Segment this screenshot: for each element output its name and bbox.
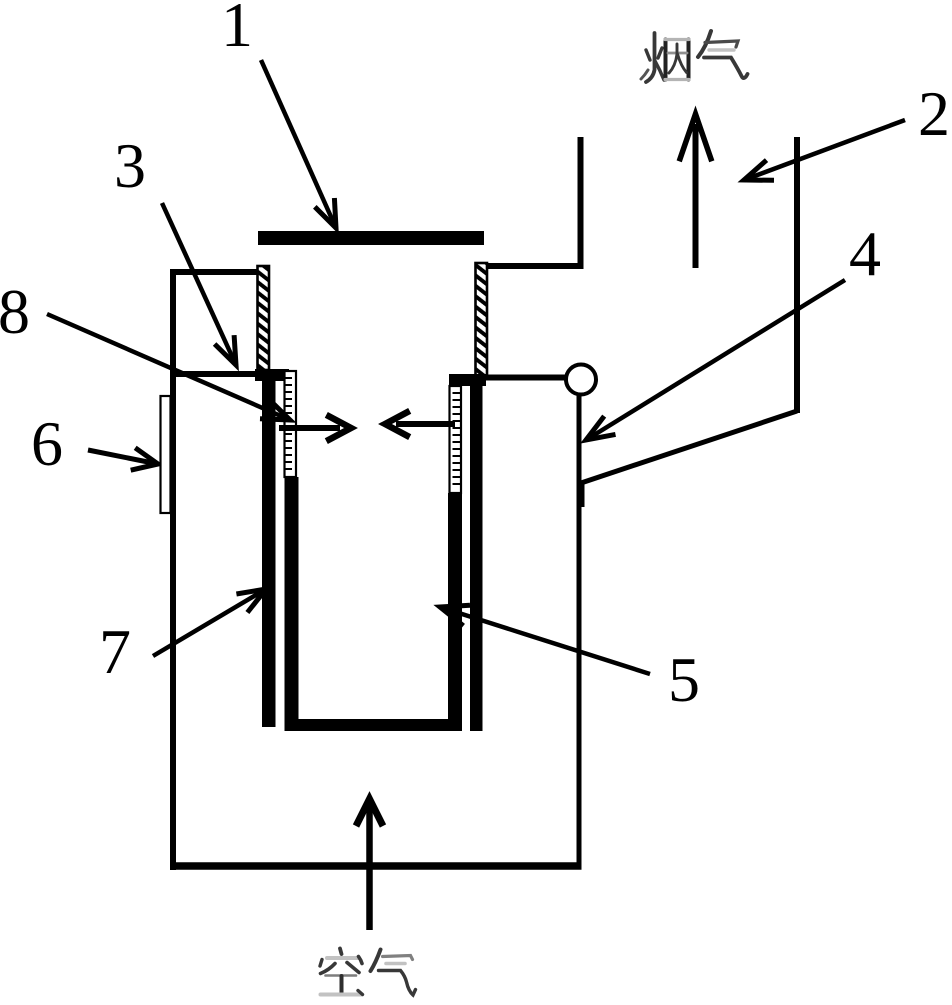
label 6: [31, 408, 63, 479]
烟 : box of 因: [664, 40, 668, 80]
electrode top blob right: [449, 374, 486, 386]
flue gas text 烟气: [641, 31, 748, 82]
tube bottom (U): [285, 719, 463, 731]
svg-text:2: 2: [918, 78, 950, 149]
air arrow: [356, 799, 383, 930]
leader arrow 4: [586, 280, 845, 440]
气 (first): [698, 31, 711, 57]
svg-text:1: 1: [221, 0, 253, 60]
terminal ball: [566, 365, 596, 395]
electrode top blob left: [255, 369, 289, 381]
left porous wall (8): ladder part: [285, 371, 297, 477]
svg-text:8: 8: [0, 276, 30, 347]
空 : roof: [340, 949, 342, 955]
top plate (element 1): [258, 231, 484, 245]
hatched tube wall left: [258, 266, 270, 370]
leader arrow 3: [162, 203, 236, 365]
空 : 工: [326, 974, 357, 977]
气 (second): [371, 950, 381, 972]
hatched tube wall right: [476, 263, 488, 376]
left electrode bar (7): [262, 374, 276, 727]
cap line right to ball: [486, 375, 567, 381]
leader arrow 8: [47, 314, 290, 420]
leader arrow 6: [88, 448, 158, 470]
label 5: [668, 644, 700, 715]
gas jet arrow right: [385, 411, 455, 437]
left porous wall solid lower part: [285, 477, 299, 731]
svg-text:4: 4: [849, 218, 881, 289]
svg-text:6: 6: [31, 408, 63, 479]
leader arrow 7: [153, 589, 266, 656]
outer vessel top-left box: [170, 272, 266, 374]
leader arrow 5: [440, 605, 650, 674]
label 8: [0, 276, 30, 347]
right porous wall solid lower part: [448, 493, 462, 731]
label 7: [99, 616, 131, 687]
right electrode bar (5): [470, 386, 483, 731]
flue outlet duct: [483, 137, 581, 266]
flue gas arrow: [679, 114, 712, 268]
air text 空气: [320, 949, 416, 996]
label 2: [918, 78, 950, 149]
svg-text:3: 3: [114, 130, 146, 201]
空 : 八: [321, 964, 336, 974]
label 1: [221, 0, 253, 60]
sampling port rect (element 6): [161, 396, 171, 513]
conductor rod (element 2): [581, 137, 797, 507]
svg-text:5: 5: [668, 644, 700, 715]
leader arrow 2: [744, 120, 905, 180]
leader arrow 1: [261, 60, 336, 228]
label 4: [849, 218, 881, 289]
right porous wall (5): ladder part: [450, 386, 462, 493]
gas jet arrow left: [279, 415, 351, 441]
svg-text:7: 7: [99, 616, 131, 687]
烟 : 大 inside: [668, 52, 687, 55]
outer vessel walls: [170, 269, 582, 870]
烟 : fire radical: [646, 33, 655, 82]
label 3: [114, 130, 146, 201]
